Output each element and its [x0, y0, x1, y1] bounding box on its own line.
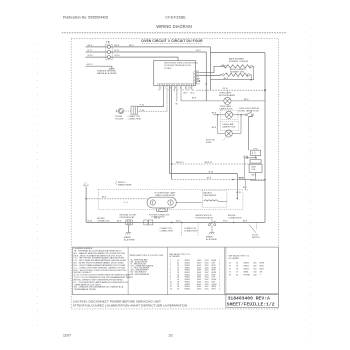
lamp oven lamp 3: [225, 130, 232, 137]
svg-text:BR - BROWN/BRUN: BR - BROWN/BRUN: [131, 274, 150, 276]
bus drop left x169.5: [169, 86, 171, 174]
wire bottom rail y222.4: [86, 220, 265, 222]
switch stub up: [211, 219, 213, 221]
svg-text:18: 18: [229, 275, 231, 277]
header rule: [62, 32, 287, 34]
svg-text:CONNECTEUR: CONNECTEUR: [228, 218, 242, 220]
svg-text:R 17: R 17: [196, 50, 201, 52]
wire W 10 left: [86, 55, 108, 57]
op-board EOC electronic oven control: [154, 61, 199, 86]
relay box K1: [250, 160, 261, 163]
starter caption: [149, 214, 170, 218]
svg-text:9: 9: [178, 90, 179, 92]
svg-text:BK 8: BK 8: [184, 93, 188, 95]
svg-text:CHASSIS GROUND: CHASSIS GROUND: [97, 69, 116, 72]
svg-text:WIRE DIRECTORY & COLOR CODE: WIRE DIRECTORY & COLOR CODE: [130, 255, 164, 257]
svg-text:ELEMENT GRIL: ELEMENT GRIL: [230, 72, 246, 74]
svg-text:300: 300: [254, 275, 257, 277]
wire table 2 rows: [229, 263, 265, 277]
svg-text:RY1: RY1: [196, 71, 199, 73]
svg-text:BK 8: BK 8: [129, 45, 135, 47]
svg-text:A LA TERRE: A LA TERRE: [124, 239, 136, 242]
svg-text:Publication No: 5995504426: Publication No: 5995504426: [63, 16, 108, 20]
wire dashed BK8 to tube: [86, 196, 147, 199]
node dot EOC neutral: [206, 83, 208, 85]
node dot EOC pin RY4: [199, 80, 201, 82]
bus L1 vertical x210.5: [210, 47, 212, 90]
left perforation dots: [37, 44, 39, 330]
svg-text:W 10: W 10: [88, 55, 94, 57]
node dot broil return: [250, 79, 252, 81]
node dot y179.5: [232, 179, 234, 181]
svg-text:CONNECTEUR: CONNECTEUR: [160, 231, 174, 233]
wire N R 17 right: [111, 50, 207, 52]
ground drop switch: [211, 226, 213, 233]
legend outer box: [72, 247, 278, 295]
legend text lines: [74, 248, 134, 291]
svg-text:34: 34: [236, 275, 238, 277]
legend divider 3 double: [223, 247, 225, 295]
node dot ballast: [237, 198, 239, 200]
svg-text:16: 16: [229, 269, 231, 271]
svg-text:600: 600: [254, 272, 257, 274]
legend divider 2: [166, 247, 168, 295]
fluorescent tube FL1: [147, 197, 176, 208]
svg-text:BU/R: BU/R: [260, 269, 265, 271]
node B dot: [240, 114, 242, 116]
svg-text:14: 14: [190, 88, 192, 90]
svg-text:T.B.: T.B.: [106, 41, 110, 44]
console dashed enclosure: [98, 189, 243, 209]
connector captions rail: [160, 228, 198, 233]
inline connectors on rail: [144, 220, 153, 225]
probe captions: [115, 116, 141, 120]
svg-text:BK 8: BK 8: [115, 45, 121, 47]
wire coil link: [218, 200, 227, 202]
oven light switch caption: [239, 108, 260, 113]
svg-text:BK 8: BK 8: [88, 45, 94, 47]
EOC terminal pin labels: [158, 88, 194, 92]
chassis ground caption: [97, 69, 117, 75]
svg-text:W/W: W/W: [212, 289, 216, 291]
svg-text:MASSE TERRE: MASSE TERRE: [118, 183, 132, 186]
fluorescent lamp caption: [155, 192, 177, 198]
svg-text:GR 17: GR 17: [87, 64, 94, 66]
svg-text:BK/R 10: BK/R 10: [176, 162, 184, 164]
latch box DLB: [249, 164, 262, 172]
svg-text:R 17: R 17: [115, 50, 120, 52]
wire lamp2 row y114.8: [213, 114, 245, 116]
svg-text:1: 1: [158, 90, 159, 92]
wire L1 BK 8 right to bus: [111, 45, 211, 47]
oven light caption: [219, 93, 236, 98]
dashed box lamp2: [220, 110, 238, 119]
wire probe lead dashed: [138, 86, 167, 112]
short drop x181 to lamp row: [180, 86, 182, 99]
vertical x244.5: [244, 158, 246, 180]
node dots TOD row: [247, 157, 249, 159]
bus left x86.1: [85, 186, 87, 222]
wire TOD row y157.8: [244, 156, 257, 158]
svg-text:600: 600: [254, 269, 257, 271]
svg-text:SEW-2: SEW-2: [244, 269, 250, 271]
svg-text:11/07: 11/07: [63, 333, 71, 337]
EOC right edge terminal squares: [193, 72, 195, 85]
svg-text:11: 11: [182, 90, 184, 92]
svg-text:1: 1: [219, 289, 220, 291]
svg-text:18: 18: [236, 269, 238, 271]
svg-text:SRML: SRML: [244, 272, 249, 274]
node dot right bus rail: [264, 179, 266, 181]
svg-text:BU 14: BU 14: [155, 218, 160, 220]
drop labels row: [184, 93, 197, 100]
wire probe lead solid: [138, 86, 164, 107]
svg-text:BK 8: BK 8: [117, 220, 121, 222]
bus neutral x206.3: [205, 52, 207, 101]
svg-text:TUBE FLUORESCENT: TUBE FLUORESCENT: [155, 195, 177, 197]
node dot neutral-L2: [264, 89, 266, 91]
ground caption switch: [206, 236, 218, 242]
wire lamp row y100.9: [181, 99, 265, 101]
probe connector J1: [131, 106, 138, 114]
probe holder jack: [116, 108, 124, 113]
svg-text:SEW-2: SEW-2: [244, 266, 250, 268]
lamp oven lamp 2: [225, 111, 232, 118]
part number box: [226, 294, 278, 308]
svg-text:TERRE/MASSE TERRE: TERRE/MASSE TERRE: [74, 288, 97, 291]
svg-text:105C: 105C: [205, 289, 210, 291]
svg-text:SWITCH: SWITCH: [252, 237, 260, 239]
ballast caption: [204, 191, 217, 197]
wire labels P34 G34: [140, 104, 145, 111]
svg-text:NO CALIBRE: NO CALIBRE: [229, 257, 240, 260]
EOC bottom terminal strip: [157, 84, 193, 86]
svg-text:A LA TERRE: A LA TERRE: [206, 238, 218, 241]
wire bake feed: [200, 66, 224, 72]
svg-text:WIRING DIAGRAM: WIRING DIAGRAM: [156, 24, 192, 29]
switch oven light S1: [246, 112, 254, 116]
chassis ground symbol: [109, 68, 115, 70]
svg-text:1/2: 1/2: [168, 333, 173, 337]
brown connector caption: [97, 218, 110, 222]
node A dot: [217, 114, 219, 116]
svg-text:318403400 REV:A: 318403400 REV:A: [228, 295, 270, 301]
wire table 1 header: [169, 253, 190, 258]
bus drop right x171.6: [171, 86, 173, 180]
wire N R 17 left: [86, 50, 108, 52]
svg-text:BAKE ELEMENT: BAKE ELEMENT: [229, 58, 245, 61]
wire lamp3 branch: [218, 115, 241, 134]
wire TOD to row: [255, 156, 257, 158]
svg-text:5: 5: [168, 90, 169, 92]
node dot left bus: [85, 198, 87, 200]
vertical x245.2: [244, 180, 246, 191]
oven lamp caption upper: [220, 105, 234, 111]
labels BU1 Y1: [243, 187, 248, 192]
resistor broil element: [222, 69, 250, 76]
right perforation dots: [310, 28, 312, 340]
svg-text:600: 600: [254, 263, 257, 265]
resistor bake element: [221, 58, 253, 69]
svg-text:8: 8: [175, 88, 176, 90]
svg-text:R 17: R 17: [88, 50, 93, 52]
inductor ballast coil: [204, 200, 218, 201]
wire latch enclosure bottom: [250, 179, 265, 181]
EOC right stub pins: [196, 73, 200, 84]
svg-text:13: 13: [170, 289, 172, 291]
terminal block T.B.: [106, 41, 113, 60]
svg-text:PROBE: PROBE: [244, 275, 251, 277]
wire table 2 header: [229, 255, 250, 260]
wire element returns: [211, 66, 254, 79]
dashed leaders rail: [182, 222, 198, 236]
svg-text:4: 4: [165, 88, 166, 90]
svg-text:10: 10: [236, 272, 238, 274]
svg-text:L.L. 1: L.L. 1: [124, 202, 129, 204]
svg-text:SEW-2: SEW-2: [244, 263, 250, 265]
svg-text:PROB REGULAT: PROB REGULAT: [120, 216, 136, 219]
section title OVEN CIRCUIT: [141, 39, 203, 44]
svg-text:18: 18: [177, 289, 179, 291]
svg-text:MOTEUR LAMPE: MOTEUR LAMPE: [219, 94, 236, 97]
rail labels extra: [117, 218, 247, 223]
wire broil feed: [200, 74, 222, 77]
svg-text:600: 600: [254, 266, 257, 268]
svg-text:CFEF358E: CFEF358E: [165, 16, 186, 20]
svg-text:MASSE A LA TERRE: MASSE A LA TERRE: [97, 72, 117, 75]
wire switch drop to TOD: [249, 116, 253, 151]
tube holder bracket: [157, 208, 168, 212]
node dot door tap: [171, 163, 173, 165]
oven lamp caption lower: [222, 123, 236, 129]
svg-text:18: 18: [236, 266, 238, 268]
bus right L2 x265: [264, 53, 266, 223]
svg-text:INTER. LAMPE FOUR: INTER. LAMPE FOUR: [239, 109, 260, 112]
svg-text:OVEN CIRCUIT // CIRCUIT DU FOU: OVEN CIRCUIT // CIRCUIT DU FOUR: [141, 39, 203, 43]
EOC right stub labels: [196, 71, 199, 84]
svg-text:W 10: W 10: [223, 220, 227, 222]
wire L1 BK 8 left: [86, 45, 108, 47]
vertical ballast feed x237.3: [236, 174, 238, 199]
svg-text:2: 2: [160, 88, 161, 90]
svg-text:7: 7: [173, 90, 174, 92]
switch infinite S2: [209, 221, 216, 226]
svg-text:BK/R 10: BK/R 10: [205, 162, 213, 164]
wire rail BK8 y179.5: [172, 178, 265, 180]
latch leader diagonal: [249, 222, 260, 238]
svg-text:6: 6: [170, 88, 171, 90]
clock TOD: [251, 149, 261, 156]
wire jack to connector dashed: [124, 110, 131, 112]
svg-text:BK/R: BK/R: [260, 266, 265, 268]
svg-text:FOND: FOND: [206, 142, 212, 144]
svg-text:SHEET/FEUILLE:1/2: SHEET/FEUILLE:1/2: [227, 302, 275, 308]
svg-text:SEW-2: SEW-2: [185, 289, 191, 291]
ground drop left: [128, 225, 130, 233]
dashed box lamp3: [220, 121, 239, 130]
legend divider 1: [127, 247, 129, 295]
svg-text:CONNECTEUR: CONNECTEUR: [184, 231, 198, 233]
console callout: [116, 181, 133, 187]
lamp oven light L1: [224, 97, 231, 104]
wire lamp drop dashed: [226, 90, 228, 97]
ground symbol switch: [209, 233, 215, 235]
svg-text:RY2: RY2: [196, 74, 199, 76]
svg-text:RY3: RY3: [196, 77, 199, 79]
svg-text:15: 15: [192, 90, 194, 92]
element box top rail: [211, 52, 266, 54]
svg-text:NO CALIBRE: NO CALIBRE: [169, 255, 180, 258]
svg-text:W 10: W 10: [176, 220, 180, 222]
svg-text:BK 8: BK 8: [192, 98, 196, 100]
wire rail W10 y173.5: [170, 172, 257, 177]
svg-text:REGULATEUR: REGULATEUR: [204, 194, 217, 197]
svg-text:PC BRD: PC BRD: [164, 68, 172, 70]
stub label L1 BK10: [84, 182, 89, 187]
short drop x176.9: [176, 86, 179, 106]
svg-text:18: 18: [236, 263, 238, 265]
wire door lock BK/R 10: [172, 162, 250, 164]
leader to bottom caption: [206, 137, 226, 144]
svg-text:LAMPE FOUR: LAMPE FOUR: [222, 125, 236, 128]
connector block hatch: [126, 220, 133, 225]
svg-text:BK 8: BK 8: [243, 220, 247, 222]
svg-text:W 10: W 10: [115, 55, 121, 57]
node dots rail: [171, 222, 173, 224]
svg-text:14: 14: [229, 263, 231, 265]
wire directory items: [131, 258, 154, 275]
svg-text:CONNECTEUR: CONNECTEUR: [128, 119, 142, 121]
ballast dashed box: [202, 190, 227, 207]
infinite switch caption: [196, 215, 242, 219]
ground caption left: [124, 236, 136, 242]
wire neutral dashed rail y90.2: [196, 88, 265, 90]
svg-text:17: 17: [229, 272, 231, 274]
wire GR 17 ground lead: [86, 64, 112, 68]
svg-text:BK/W: BK/W: [260, 263, 265, 265]
wire W 10 right into EOC: [111, 55, 179, 60]
wire tube to ballast: [176, 202, 202, 204]
wire latch return: [238, 173, 256, 180]
svg-text:CONNECTOR: CONNECTOR: [97, 220, 110, 222]
misc short drops: [160, 86, 192, 92]
svg-text:ELEMENT CUISSON: ELEMENT CUISSON: [229, 61, 249, 63]
ground symbol left: [125, 233, 131, 235]
svg-text:PROB REGULATOR: PROB REGULATOR: [196, 217, 214, 220]
svg-text:13: 13: [187, 90, 189, 92]
svg-text:HOLDER: HOLDER: [115, 119, 124, 121]
svg-text:15: 15: [229, 266, 231, 268]
svg-text:W 10: W 10: [191, 93, 195, 95]
wire table 1 rows: [170, 260, 220, 290]
svg-text:ATTENTION:COUPEZ L'ALIMENTATIO: ATTENTION:COUPEZ L'ALIMENTATION AVANT D'…: [73, 303, 188, 307]
regulator caption left: [120, 214, 138, 219]
page dashed border: [71, 38, 278, 309]
